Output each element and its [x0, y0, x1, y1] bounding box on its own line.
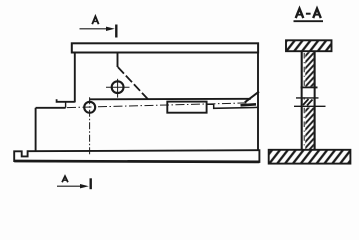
section arrow (top) — [106, 27, 115, 31]
base plate outline — [14, 150, 259, 162]
pin circle (small) — [84, 102, 95, 113]
web right edge — [314, 51, 316, 150]
top plate outline — [72, 43, 258, 52]
hole bottom centerline — [294, 105, 326, 107]
lower ledge — [36, 107, 66, 109]
edge below plate at hole center — [117, 52, 119, 67]
step connector — [65, 102, 67, 108]
step right of gib block — [207, 104, 259, 108]
ledge line left of pin — [57, 99, 75, 102]
corner diagonal — [245, 92, 259, 103]
body left edge — [74, 52, 76, 102]
web left edge — [301, 51, 303, 150]
corner bar — [241, 104, 257, 105]
web hatch upper — [305, 52, 313, 86]
body bottom edge — [90, 98, 251, 101]
body right edge — [257, 52, 259, 150]
long horizontal centerline — [67, 103, 248, 108]
section arrow (bottom) — [80, 184, 89, 188]
section label A (top) — [92, 16, 98, 24]
large hole vertical centerline — [117, 79, 119, 98]
hole circle (large) — [112, 81, 124, 93]
web hatch lower — [305, 107, 313, 149]
hole gap — [303, 88, 314, 97]
section label A (bottom) — [62, 176, 68, 182]
small hatch between lines — [303, 99, 309, 105]
section cut line (top) — [80, 28, 113, 30]
base bottom thick edge — [14, 160, 259, 164]
bottom flange (hatched) — [269, 150, 351, 164]
web vertical centerline — [303, 53, 305, 149]
section title underline — [294, 20, 324, 22]
lower-left body edge — [35, 108, 37, 152]
hidden diagonal line — [118, 67, 148, 99]
section cut thick tick (top) — [115, 25, 117, 38]
hole mid line — [296, 97, 319, 99]
pin vertical centerline — [89, 97, 91, 155]
large hole horizontal centerline — [106, 86, 130, 88]
gib block — [167, 102, 206, 113]
top flange (hatched) — [286, 40, 332, 51]
hole top line in web — [301, 86, 318, 88]
section cut line (bottom) — [57, 185, 86, 187]
section cut thick tick (bottom) — [89, 178, 91, 189]
section title A-A — [296, 9, 321, 19]
